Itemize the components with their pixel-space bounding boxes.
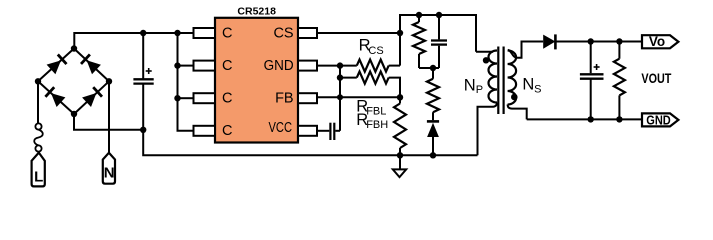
svg-text:GND: GND (264, 58, 294, 74)
svg-text:C: C (222, 25, 232, 41)
svg-text:GND: GND (646, 113, 671, 127)
svg-text:FBH: FBH (366, 119, 388, 131)
svg-text:S: S (534, 83, 541, 95)
svg-text:N: N (104, 165, 115, 182)
svg-text:CS: CS (273, 25, 293, 41)
svg-text:Vo: Vo (649, 34, 665, 49)
svg-text:C: C (222, 123, 232, 139)
svg-text:VOUT: VOUT (641, 70, 671, 86)
svg-text:C: C (222, 58, 232, 74)
svg-text:L: L (34, 169, 43, 186)
svg-text:CS: CS (368, 45, 383, 57)
svg-text:C: C (222, 91, 232, 107)
svg-text:P: P (476, 84, 483, 96)
svg-text:CR5218: CR5218 (237, 6, 276, 18)
svg-text:FB: FB (275, 91, 294, 107)
svg-text:FBL: FBL (366, 106, 386, 118)
svg-text:N: N (522, 76, 534, 94)
svg-text:N: N (464, 77, 476, 95)
svg-text:VCC: VCC (269, 120, 293, 136)
